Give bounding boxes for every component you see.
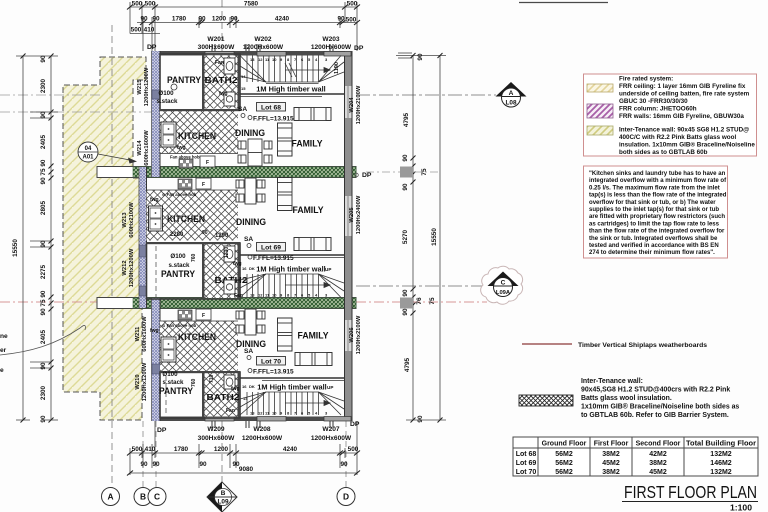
svg-text:A01: A01 — [82, 155, 94, 161]
top partial border line — [519, 2, 608, 4]
svg-text:F.FFL=13.915: F.FFL=13.915 — [253, 255, 294, 262]
inter-tenancy wall band 1 — [97, 167, 356, 178]
svg-text:FAMILY: FAMILY — [293, 204, 325, 215]
svg-text:500: 500 — [346, 17, 357, 24]
svg-text:90: 90 — [417, 53, 424, 61]
svg-text:1M High timber wall: 1M High timber wall — [256, 85, 325, 94]
svg-text:13: 13 — [250, 411, 255, 416]
svg-text:W207: W207 — [322, 426, 340, 433]
svg-text:W202: W202 — [254, 36, 272, 43]
svg-text:04: 04 — [85, 146, 92, 152]
wall bath/stair u1 — [238, 56, 241, 110]
wall pantry/bath u1 — [202, 56, 205, 110]
svg-text:13: 13 — [250, 57, 255, 62]
inter-tenancy wall band 2 — [97, 298, 356, 309]
svg-text:DP: DP — [362, 172, 372, 179]
svg-text:5270: 5270 — [402, 229, 409, 244]
FFL u1 — [248, 116, 252, 120]
svg-text:1:100: 1:100 — [730, 503, 752, 512]
svg-text:56M2: 56M2 — [555, 469, 573, 476]
wall above pantry u3 — [160, 371, 240, 373]
window openings: right wall — [345, 86, 352, 351]
swatch FRR ceiling — [587, 84, 613, 92]
svg-text:Batts glass wool insulation.: Batts glass wool insulation. — [581, 395, 672, 402]
svg-text:W201: W201 — [207, 36, 225, 43]
svg-text:Total Building Floor: Total Building Floor — [686, 441, 756, 448]
svg-text:600Hx1600W: 600Hx1600W — [142, 316, 148, 352]
stair u1 — [240, 56, 344, 84]
svg-text:SA: SA — [244, 236, 253, 243]
svg-text:56M2: 56M2 — [555, 451, 573, 458]
svg-text:PANTRY: PANTRY — [161, 269, 195, 279]
svg-text:500: 500 — [132, 1, 143, 8]
svg-text:1200Hx1200W: 1200Hx1200W — [142, 362, 148, 401]
svg-text:B: B — [221, 490, 226, 497]
svg-text:760: 760 — [191, 253, 197, 262]
svg-text:14: 14 — [243, 279, 248, 284]
svg-text:e: e — [0, 367, 4, 374]
svg-text:90: 90 — [40, 362, 47, 370]
svg-text:DP: DP — [157, 427, 167, 434]
svg-text:400C/C with R2.2 Pink Batts gl: 400C/C with R2.2 Pink Batts glass wool — [619, 134, 736, 141]
u3 pantry/bath room outline — [160, 372, 240, 418]
top dim line row1 — [130, 6, 357, 8]
extension ticks row2 — [142, 17, 144, 51]
svg-text:7580: 7580 — [244, 1, 259, 8]
svg-text:0.25 l/s. The maximum flow rat: 0.25 l/s. The maximum flow rate from the… — [589, 185, 720, 191]
svg-text:integrated overflow with a min: integrated overflow with a minimum flow … — [589, 178, 727, 184]
top dim line row3 — [130, 33, 160, 35]
svg-text:1200Hx600W: 1200Hx600W — [311, 435, 352, 442]
svg-text:GBUC 30 -FRR30/30/30: GBUC 30 -FRR30/30/30 — [619, 98, 688, 105]
svg-text:42M2: 42M2 — [649, 451, 667, 458]
svg-text:DP: DP — [350, 421, 360, 428]
svg-text:ne: ne — [0, 333, 8, 340]
svg-text:s.stack: s.stack — [169, 262, 191, 269]
svg-text:2405: 2405 — [40, 134, 47, 149]
svg-text:90: 90 — [40, 55, 47, 63]
svg-text:L08: L08 — [505, 100, 516, 107]
grid dashes B C D below building — [142, 421, 144, 487]
building outline walls — [139, 51, 352, 421]
svg-text:Ø100: Ø100 — [162, 371, 178, 378]
wall below pantry u1 — [160, 109, 240, 111]
centerline A (dash-dot) — [0, 94, 100, 96]
svg-text:DK: DK — [249, 384, 255, 389]
svg-text:fwg: fwg — [231, 386, 240, 392]
svg-text:fwg: fwg — [233, 261, 242, 267]
svg-text:PANTRY: PANTRY — [167, 75, 201, 85]
svg-text:the sink or tub. Integrated ov: the sink or tub. Integrated overflows sh… — [589, 236, 718, 242]
svg-text:1200Hx1200W: 1200Hx1200W — [144, 67, 150, 106]
svg-text:132M2: 132M2 — [710, 451, 732, 458]
wall window labels right — [349, 85, 362, 354]
svg-text:tap(s) is less than the flow r: tap(s) is less than the flow rate of the… — [589, 193, 727, 199]
svg-text:2280: 2280 — [170, 232, 184, 238]
svg-text:4240: 4240 — [283, 446, 298, 453]
svg-text:DP: DP — [354, 45, 364, 52]
swatch inter-tenance — [587, 126, 613, 135]
svg-text:C: C — [501, 280, 506, 287]
svg-text:FAMILY: FAMILY — [292, 138, 324, 149]
svg-text:600Hx2100W: 600Hx2100W — [129, 202, 135, 238]
svg-text:W209: W209 — [207, 426, 225, 433]
svg-text:overflow for that sink or tub,: overflow for that sink or tub, or b) The… — [589, 200, 716, 206]
svg-text:56M2: 56M2 — [555, 460, 573, 467]
svg-text:90: 90 — [337, 16, 345, 23]
grid line B2 vertical dashed — [221, 0, 223, 51]
svg-text:1M High timber wall: 1M High timber wall — [256, 265, 325, 274]
svg-text:tested and verified in accorda: tested and verified in accordance with B… — [589, 243, 719, 249]
svg-text:1200Hx600W: 1200Hx600W — [242, 435, 283, 442]
svg-text:1200: 1200 — [214, 446, 229, 453]
svg-text:2275: 2275 — [40, 264, 47, 279]
svg-text:300Hx600W: 300Hx600W — [198, 44, 235, 51]
Lot 68 label — [257, 103, 286, 112]
window blocks: top wall — [205, 52, 351, 57]
svg-text:500: 500 — [132, 446, 143, 453]
svg-text:as cartridges) to limit the ta: as cartridges) to limit the tap flow rat… — [589, 221, 720, 227]
svg-text:76: 76 — [416, 297, 423, 305]
bottom wall — [152, 417, 353, 422]
window blocks: bottom wall — [205, 417, 351, 422]
u3 pantry cupboard dashed — [165, 376, 167, 415]
svg-text:PANTRY: PANTRY — [159, 386, 193, 396]
svg-text:FRR ceiling: 1 layer 16mm GIB: FRR ceiling: 1 layer 16mm GIB Fyreline f… — [619, 83, 746, 90]
svg-text:500: 500 — [347, 1, 358, 8]
svg-text:fwg: fwg — [219, 91, 228, 97]
svg-text:38M2: 38M2 — [602, 469, 620, 476]
svg-text:F: F — [202, 313, 205, 319]
svg-text:16: 16 — [242, 384, 247, 389]
svg-text:2805: 2805 — [40, 200, 47, 215]
svg-text:10: 10 — [272, 293, 277, 298]
svg-text:⊙ Fan above hob: ⊙ Fan above hob — [162, 323, 197, 328]
stair u3 — [240, 377, 344, 379]
svg-text:2300: 2300 — [40, 78, 47, 93]
svg-text:90 75 90: 90 75 90 — [40, 159, 47, 184]
svg-text:10: 10 — [272, 411, 277, 416]
u1 pantry/bath room outline — [160, 54, 240, 110]
svg-text:146M2: 146M2 — [710, 460, 732, 467]
svg-text:90x45,SG8 H1.2 STUD@400crs wit: 90x45,SG8 H1.2 STUD@400crs with R2.2 Pin… — [581, 387, 730, 394]
svg-text:300Hx600W: 300Hx600W — [198, 435, 235, 442]
svg-text:1190: 1190 — [334, 62, 340, 74]
svg-text:90: 90 — [152, 461, 160, 468]
svg-text:10: 10 — [272, 57, 277, 62]
svg-text:14: 14 — [241, 74, 246, 79]
svg-text:BATH2: BATH2 — [207, 392, 240, 402]
svg-text:15550: 15550 — [12, 239, 19, 257]
tick marks top — [127, 5, 360, 26]
left dim labels (rotated) — [12, 55, 47, 423]
svg-text:Ø100: Ø100 — [158, 90, 174, 97]
Lot 69 label — [257, 243, 286, 252]
svg-text:90: 90 — [402, 183, 409, 191]
svg-text:Ø100: Ø100 — [170, 253, 186, 260]
svg-text:DINING: DINING — [235, 128, 265, 138]
svg-text:38M2: 38M2 — [649, 460, 667, 467]
svg-text:BATH2: BATH2 — [205, 75, 238, 85]
svg-text:90: 90 — [402, 289, 409, 297]
svg-text:F.FFL=13.915: F.FFL=13.915 — [253, 369, 294, 376]
svg-text:1200Hx2100W: 1200Hx2100W — [356, 85, 362, 124]
svg-text:W204: W204 — [349, 97, 355, 113]
Lot 70 label — [257, 357, 286, 366]
svg-text:90: 90 — [230, 16, 238, 23]
svg-text:F: F — [206, 160, 209, 166]
svg-text:90: 90 — [40, 111, 47, 119]
window wall ticks bottom — [212, 421, 333, 428]
grid line A vertical dashed — [111, 25, 113, 488]
svg-text:Fire rated system:: Fire rated system: — [619, 76, 673, 83]
right dim labels (rotated) — [402, 53, 438, 423]
section marker diamond B/L09 — [207, 482, 237, 512]
svg-text:er: er — [0, 347, 7, 354]
bath2 u1 tile floor — [204, 56, 238, 109]
svg-text:A: A — [509, 90, 514, 97]
svg-text:D: D — [343, 492, 349, 502]
svg-text:12: 12 — [258, 57, 263, 62]
svg-text:s.stack: s.stack — [157, 98, 179, 105]
svg-text:132M2: 132M2 — [710, 469, 732, 476]
svg-text:L09: L09 — [217, 499, 228, 506]
svg-text:FAMILY: FAMILY — [298, 330, 330, 341]
svg-text:B: B — [140, 492, 146, 502]
svg-text:W214: W214 — [137, 140, 143, 156]
svg-text:L09A: L09A — [496, 290, 511, 296]
svg-text:KITCHEN: KITCHEN — [178, 131, 216, 141]
svg-text:1290: 1290 — [215, 233, 229, 239]
left wall blue hatched u2 (offset) — [139, 167, 147, 308]
svg-text:4240: 4240 — [275, 16, 290, 23]
svg-text:410: 410 — [144, 27, 155, 34]
svg-text:W212: W212 — [122, 260, 128, 275]
svg-text:First Floor: First Floor — [594, 441, 629, 448]
svg-text:9080: 9080 — [239, 466, 254, 473]
svg-text:12: 12 — [258, 411, 263, 416]
svg-text:13: 13 — [250, 293, 255, 298]
svg-text:Fan: Fan — [215, 60, 224, 66]
svg-text:1200Hx2100W: 1200Hx2100W — [356, 315, 362, 354]
svg-text:1200Hx600W: 1200Hx600W — [311, 44, 352, 51]
bath fixtures u1 — [224, 58, 235, 74]
svg-text:38M2: 38M2 — [602, 451, 620, 458]
kitchen u2 tile floor — [147, 190, 239, 241]
top dim line row2 — [137, 22, 357, 24]
svg-text:W203: W203 — [322, 36, 340, 43]
svg-text:1200Hx1200W: 1200Hx1200W — [129, 248, 135, 287]
svg-text:90: 90 — [152, 16, 160, 23]
bath2 u2 tile floor — [204, 244, 240, 298]
kitchen u3 appliances — [178, 310, 192, 320]
svg-text:DK: DK — [249, 266, 255, 271]
svg-text:15550: 15550 — [431, 228, 438, 246]
svg-text:UP: UP — [327, 385, 333, 390]
left wall blue hatched u3 — [152, 298, 161, 421]
wall pantry/bath u3 — [202, 373, 205, 417]
yellow hatched ground area — [63, 57, 146, 420]
svg-text:A: A — [107, 492, 113, 502]
svg-text:SA: SA — [244, 348, 253, 355]
svg-text:90: 90 — [140, 16, 148, 23]
svg-text:410: 410 — [145, 446, 156, 453]
svg-text:Inter-Tenance wall: 90x45 SG8: Inter-Tenance wall: 90x45 SG8 H1.2 STUD@ — [619, 127, 749, 134]
svg-text:W205: W205 — [349, 207, 355, 223]
svg-text:500: 500 — [145, 1, 156, 8]
right wall — [345, 51, 353, 421]
svg-text:C: C — [154, 492, 160, 502]
dash-dot extensions right of bands — [366, 171, 440, 173]
svg-text:45M2: 45M2 — [649, 469, 667, 476]
svg-text:90: 90 — [340, 461, 348, 468]
svg-text:710: 710 — [209, 374, 215, 383]
centerline C (pink dash-dot) — [0, 301, 97, 303]
svg-text:90 75 90: 90 75 90 — [40, 290, 47, 315]
svg-text:1200: 1200 — [212, 16, 227, 23]
svg-text:500: 500 — [131, 27, 142, 34]
svg-text:s.stack: s.stack — [163, 379, 185, 386]
kitchen u1 tile floor — [160, 111, 238, 154]
svg-text:F.FFL=13.915: F.FFL=13.915 — [253, 116, 294, 123]
svg-text:⊙ Fan above hob: ⊙ Fan above hob — [162, 192, 197, 197]
svg-text:Inter-Tenance wall:: Inter-Tenance wall: — [581, 378, 643, 385]
svg-text:15: 15 — [241, 86, 246, 91]
svg-text:12: 12 — [258, 293, 263, 298]
svg-text:760: 760 — [191, 378, 197, 387]
svg-text:90: 90 — [199, 461, 207, 468]
svg-text:underside of ceiling batten, f: underside of ceiling batten, fire rate s… — [619, 91, 750, 98]
svg-text:274 to determine their minimum: 274 to determine their minimum flow rate… — [589, 250, 715, 256]
bath2 u3 tile floor — [204, 373, 240, 417]
svg-text:1780: 1780 — [174, 446, 189, 453]
svg-text:90: 90 — [198, 16, 206, 23]
stair u2 — [240, 254, 344, 256]
svg-text:2405: 2405 — [40, 329, 47, 344]
svg-text:Lot 70: Lot 70 — [516, 469, 537, 476]
svg-text:FRR column: JHETOO60h: FRR column: JHETOO60h — [619, 106, 697, 113]
svg-text:fwg: fwg — [150, 197, 159, 203]
wall pantry/bath u2 — [202, 244, 205, 298]
svg-text:90: 90 — [402, 308, 409, 316]
svg-text:75: 75 — [429, 297, 436, 305]
svg-text:KITCHEN: KITCHEN — [178, 332, 216, 342]
svg-text:W211: W211 — [135, 326, 141, 342]
svg-text:than the flow rate of the inte: than the flow rate of the integrated ove… — [589, 229, 725, 235]
svg-text:fwg: fwg — [150, 328, 159, 334]
svg-text:1M High timber wall: 1M High timber wall — [257, 383, 326, 392]
u2 pantry/bath room outline — [147, 243, 241, 299]
svg-text:90: 90 — [417, 415, 424, 423]
svg-text:Lot 70: Lot 70 — [261, 359, 281, 366]
swatch FRR column/walls — [587, 104, 613, 118]
svg-text:1200Hx2400W: 1200Hx2400W — [356, 195, 362, 234]
svg-text:45M2: 45M2 — [602, 460, 620, 467]
u2 pantry cupboard dashed — [155, 246, 157, 297]
crosshatch swatch — [519, 395, 573, 406]
svg-text:600Hx1600W: 600Hx1600W — [144, 130, 150, 166]
left wall blue hatched u1 — [152, 51, 161, 177]
svg-text:Lot 68: Lot 68 — [516, 451, 537, 458]
svg-text:Second Floor: Second Floor — [636, 441, 681, 448]
svg-text:are fitted with proprietary fl: are fitted with proprietary flow restric… — [589, 214, 725, 220]
svg-text:1780: 1780 — [172, 16, 187, 23]
svg-text:2300: 2300 — [40, 385, 47, 400]
svg-text:90: 90 — [402, 154, 409, 162]
svg-text:F: F — [202, 182, 205, 188]
svg-text:90: 90 — [40, 415, 47, 423]
wall above pantry u2 — [147, 242, 241, 244]
svg-text:insulation. 1x10mm GIB® Bracel: insulation. 1x10mm GIB® Braceline/Noisel… — [619, 141, 755, 149]
svg-text:W210: W210 — [135, 374, 141, 389]
svg-text:W206: W206 — [349, 327, 355, 343]
svg-text:Timber Vertical Shiplaps weath: Timber Vertical Shiplaps weatherboards — [578, 342, 707, 349]
svg-text:90: 90 — [140, 461, 148, 468]
svg-text:W208: W208 — [253, 426, 271, 433]
svg-text:both sides as to GBTLAB 60b: both sides as to GBTLAB 60b — [619, 149, 708, 156]
svg-text:UP: UP — [325, 267, 331, 272]
svg-text:4795: 4795 — [403, 112, 410, 127]
svg-text:fwg: fwg — [177, 145, 186, 151]
window wall ticks top — [212, 44, 333, 51]
svg-text:Fan: Fan — [226, 408, 235, 414]
kitchen u2 appliances — [178, 179, 192, 189]
svg-text:"Kitchen sinks and laundry tub: "Kitchen sinks and laundry tube has to h… — [589, 171, 726, 177]
window openings: left wall — [139, 90, 160, 374]
svg-text:W215: W215 — [137, 79, 143, 95]
svg-text:DP: DP — [147, 44, 157, 51]
svg-text:90: 90 — [202, 230, 208, 236]
svg-text:1230: 1230 — [224, 247, 230, 258]
svg-text:Ground Floor: Ground Floor — [542, 441, 587, 448]
svg-text:DINING: DINING — [236, 217, 266, 227]
kitchen u3 tile floor — [160, 321, 238, 371]
svg-text:FRR walls: 16mm GIB Fyreline,: FRR walls: 16mm GIB Fyreline, GBUW30a — [619, 113, 744, 120]
gray blocks at band crossings right — [400, 167, 413, 178]
svg-text:4795: 4795 — [404, 357, 411, 372]
svg-text:16: 16 — [242, 266, 247, 271]
leader curve from off-page note — [0, 325, 85, 355]
svg-text:500: 500 — [348, 446, 359, 453]
svg-text:Lot 69: Lot 69 — [516, 460, 537, 467]
svg-text:supplies to the inlet tap(s) f: supplies to the inlet tap(s) for that si… — [589, 207, 719, 213]
top wall — [152, 51, 353, 56]
svg-text:Lot 69: Lot 69 — [261, 245, 281, 252]
svg-text:W213: W213 — [122, 212, 128, 228]
svg-text:14: 14 — [243, 396, 248, 401]
svg-text:1x10mm GIB® Braceline/Noiselin: 1x10mm GIB® Braceline/Noiseline both sid… — [581, 403, 739, 411]
svg-text:Lot 68: Lot 68 — [261, 105, 281, 112]
svg-text:SA: SA — [238, 106, 247, 113]
svg-text:to GBTLAB 60b. Refer to GIB Ba: to GBTLAB 60b. Refer to GIB Barrier Syst… — [581, 412, 729, 419]
svg-text:FIRST FLOOR PLAN: FIRST FLOOR PLAN — [624, 482, 757, 502]
svg-text:90: 90 — [40, 240, 47, 248]
svg-text:KITCHEN: KITCHEN — [167, 214, 205, 224]
